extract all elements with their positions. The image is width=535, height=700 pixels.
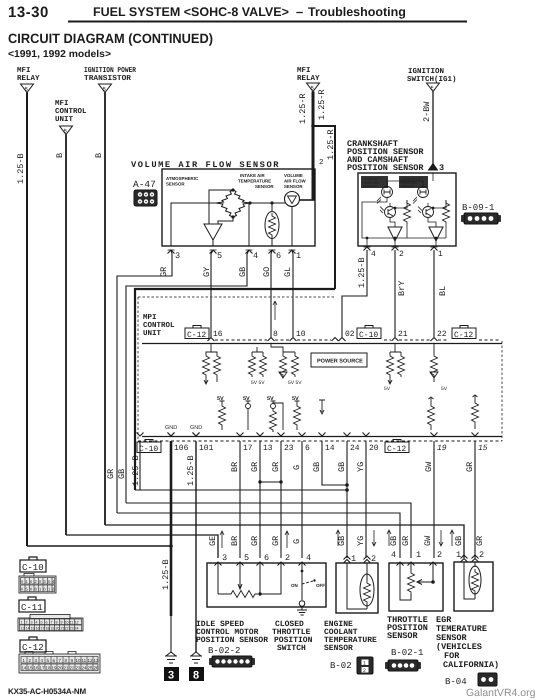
coolant box pin markers [344, 556, 371, 563]
svg-text:5V: 5V [441, 386, 448, 392]
svg-text:1: 1 [456, 550, 461, 560]
svg-text:13: 13 [263, 444, 273, 453]
EGR temperature sensor box [454, 562, 493, 611]
wire ECU pin6 G to idle pin4 [301, 441, 303, 558]
svg-text:19: 19 [51, 627, 55, 631]
svg-text:GR: GR [271, 462, 281, 472]
rail bridge right to circle [250, 202, 286, 204]
svg-text:IGNITION POWER: IGNITION POWER [84, 66, 136, 75]
svg-text:A-47: A-47 [133, 179, 156, 190]
svg-text:5V 5V: 5V 5V [288, 380, 302, 386]
svg-text:SENSOR: SENSOR [166, 182, 185, 187]
svg-text:1: 1 [21, 621, 23, 625]
wire relay route into ECU left [135, 289, 335, 490]
wire rail to oval resistor top [271, 203, 273, 212]
svg-text:8: 8 [273, 330, 278, 339]
power source box [311, 353, 367, 367]
svg-text:18: 18 [46, 666, 52, 671]
svg-text:1.25-R: 1.25-R [298, 93, 308, 124]
connector C-11 pin diagram [18, 615, 83, 632]
connector C-11 boxed label [19, 597, 45, 613]
svg-text:1.25-B: 1.25-B [131, 455, 141, 486]
ECU top pin 22 [431, 338, 438, 342]
svg-text:6: 6 [305, 444, 310, 453]
wire ECU pin19 GW to throttle pin2 [433, 441, 435, 558]
engine coolant temperature sensor box [336, 563, 378, 613]
svg-text:POSITION SENSOR: POSITION SENSOR [196, 636, 268, 645]
ECU interior: resistor at pin22 [430, 343, 438, 382]
svg-text:5: 5 [244, 553, 249, 563]
cam load resistor [404, 200, 411, 224]
EGR thermistor [464, 562, 481, 599]
svg-text:GE: GE [208, 536, 218, 546]
svg-text:Troubleshooting: Troubleshooting [308, 5, 406, 19]
svg-text:INTAKE AIR: INTAKE AIR [240, 173, 265, 178]
ignition switch symbol [427, 83, 440, 92]
svg-text:1.25-R: 1.25-R [326, 129, 336, 160]
svg-text:SWITCH: SWITCH [277, 644, 306, 653]
wire crank pin2 BrY to ECU pin 21 [394, 250, 396, 337]
svg-text:12: 12 [75, 621, 79, 625]
jumper GR pins 13-23 [260, 481, 281, 483]
svg-text:4: 4 [36, 621, 38, 625]
svg-text:10: 10 [76, 658, 82, 663]
svg-text:2: 2 [285, 553, 290, 563]
svg-text:SENSOR: SENSOR [387, 631, 419, 641]
svg-text:C-12: C-12 [387, 445, 406, 454]
svg-text:8: 8 [193, 670, 199, 682]
svg-text:20: 20 [56, 627, 60, 631]
intake air temperature sensor label [238, 173, 274, 189]
svg-text:1: 1 [351, 554, 356, 564]
crank amp triangle [429, 227, 443, 241]
wire amplifier to pin 5 [212, 240, 214, 246]
camshaft position sensor mini label [361, 176, 388, 189]
svg-text:GR: GR [475, 536, 485, 546]
wire bridge right to pin 4 [248, 204, 250, 246]
svg-text:5V 5V: 5V 5V [251, 380, 265, 386]
idle box pin markers [215, 562, 306, 566]
svg-text:20: 20 [369, 444, 379, 453]
wire ECU pin23 GR to idle pin2 [280, 441, 282, 558]
svg-text:UNIT: UNIT [143, 330, 162, 338]
svg-text:4: 4 [391, 550, 396, 560]
ECU interior second row 5V pullups [217, 396, 299, 402]
svg-text:1.25-R: 1.25-R [317, 89, 327, 120]
svg-text:B-04: B-04 [445, 677, 467, 687]
connector C-10 pin diagram [19, 574, 56, 594]
svg-text:6: 6 [264, 553, 269, 563]
ECU top strip solid line [142, 343, 502, 345]
svg-text:3: 3 [439, 163, 444, 173]
crank load resistor [443, 200, 450, 224]
svg-text:GB: GB [337, 462, 347, 472]
svg-text:OFF: OFF [316, 583, 325, 588]
ECU top pin 10 [290, 338, 297, 342]
svg-text:3: 3 [175, 251, 180, 261]
wire VAF pin6 GO to ECU pin 8 [271, 250, 272, 337]
svg-text:C-11: C-11 [21, 603, 43, 613]
ECU top unlabeled pin (relay feed) [332, 338, 339, 342]
svg-text:19: 19 [52, 666, 58, 671]
wire bridge left to pin 3 [171, 203, 216, 246]
idle speed label [196, 620, 268, 645]
engine coolant label [324, 620, 377, 653]
svg-text:–: – [296, 4, 303, 19]
svg-text:16: 16 [36, 627, 40, 631]
svg-text:5: 5 [217, 251, 222, 261]
ECU ground GND markers [165, 425, 202, 431]
wire oval bottom to pin 6 [271, 237, 273, 246]
wire relay branch to ECU [313, 126, 335, 289]
svg-text:SENSOR: SENSOR [255, 184, 274, 189]
svg-text:23: 23 [70, 627, 74, 631]
connector B-02-2 icon [210, 656, 255, 667]
MFI control unit box (dashed) [138, 297, 502, 441]
MFI control unit symbol [60, 126, 73, 135]
cam phototransistor [380, 207, 396, 218]
idle box interior motor network [218, 563, 281, 598]
cam amp triangle [388, 227, 402, 241]
wire MFI relay left, 1.25-B [26, 93, 28, 547]
bus H5 GE to idle pin3 [66, 535, 218, 558]
ECU top pin row dashed line [215, 339, 500, 341]
wire ignition switch 2-BW [432, 92, 434, 165]
ECU interior: pullup pair with diode [271, 343, 299, 378]
svg-text:3: 3 [222, 553, 227, 563]
ECU top pin 16 [208, 338, 215, 342]
crank LED diode [413, 187, 429, 204]
svg-text:16: 16 [213, 330, 223, 339]
closed throttle switch label [272, 620, 313, 653]
ECU top pin 21 [392, 338, 399, 342]
svg-text:4: 4 [253, 251, 258, 261]
ECU top boxed C-12 (second) [452, 326, 476, 341]
amplifier triangle (atmospheric) [204, 224, 222, 240]
svg-text:2: 2 [319, 158, 324, 167]
ECU top pin 02 with boxed C-10 [339, 338, 346, 342]
svg-text:GB: GB [337, 536, 347, 546]
wire crank pin1 BL to ECU pin 22 [433, 250, 435, 337]
svg-text:YG: YG [356, 462, 366, 472]
svg-text:GB: GB [389, 536, 399, 546]
svg-text:21: 21 [398, 330, 408, 339]
wire MFI control unit, B [65, 135, 67, 536]
svg-text:GW: GW [423, 535, 433, 546]
svg-text:2: 2 [399, 250, 404, 259]
crank internal wiring [362, 173, 446, 246]
svg-text:5: 5 [41, 621, 43, 625]
svg-text:3: 3 [31, 621, 33, 625]
coolant thermistor [347, 563, 374, 609]
svg-text:2: 2 [479, 550, 484, 560]
bus H4 GB to EGR pin1 [105, 525, 464, 558]
svg-text:4: 4 [306, 553, 311, 563]
wire ECU pin24 GB to coolant pin1 [346, 441, 348, 558]
svg-text:C-10: C-10 [139, 445, 158, 454]
wire bridge top to left rail [209, 190, 233, 224]
wire ECU pin 101 ground [195, 441, 197, 652]
svg-text:15: 15 [478, 444, 488, 453]
svg-text:1: 1 [416, 550, 421, 560]
svg-text:B-02-2: B-02-2 [208, 646, 240, 656]
svg-text:9: 9 [61, 621, 63, 625]
MFI relay (left) label [17, 67, 40, 83]
volume air flow sensor inner label [284, 173, 307, 189]
svg-text:CONTROL: CONTROL [55, 107, 87, 116]
svg-text:11: 11 [82, 658, 87, 663]
ECU bottom boxed C-10 [137, 440, 161, 455]
svg-text:1.25-B: 1.25-B [357, 257, 367, 288]
svg-text:1.25-B: 1.25-B [186, 455, 196, 486]
svg-text:C-10: C-10 [359, 331, 378, 340]
connector B-02-1 icon [386, 660, 421, 671]
svg-text:SENSOR: SENSOR [284, 184, 303, 189]
connector A-47 icon [134, 190, 157, 206]
svg-text:GB: GB [117, 469, 127, 479]
wire ECU C-10 1.25-B drop [139, 441, 141, 490]
wire bridge bottom to amplifier [218, 217, 233, 224]
throttle label [387, 615, 428, 641]
svg-text:MFI: MFI [55, 100, 69, 108]
svg-text:17: 17 [41, 627, 45, 631]
svg-text:26: 26 [94, 666, 100, 671]
ECU top pin row: boxed C-12 [185, 326, 209, 341]
intake air temp resistor oval [265, 212, 279, 239]
wire VAF pin1 GL to ECU pin 10 [292, 250, 293, 337]
svg-text:GND: GND [165, 425, 177, 431]
cam LED diode [377, 187, 393, 204]
MFI relay (right) symbol [307, 83, 320, 92]
crank/cam sensor box [358, 173, 456, 246]
crank phototransistor [418, 207, 434, 218]
svg-text:2: 2 [363, 668, 366, 674]
header rule [68, 21, 467, 23]
bus H2 GR to throttle pin1 [126, 503, 411, 558]
svg-text:G: G [292, 539, 302, 544]
connector C-12 boxed label [20, 637, 46, 653]
wire MFI relay right 1.25-R thick [312, 92, 315, 201]
bridge junction dots [231, 188, 234, 191]
svg-text:2-BW: 2-BW [422, 101, 432, 122]
air flow sensor circle [285, 192, 300, 207]
wire transistor, B [104, 93, 106, 526]
svg-text:14: 14 [325, 444, 335, 453]
svg-text:23: 23 [76, 666, 82, 671]
svg-text:GW: GW [424, 461, 434, 472]
svg-text:02: 02 [345, 330, 355, 339]
ECU bottom boxed C-12 [385, 440, 409, 455]
wire circle down to pin 1 [291, 207, 293, 247]
svg-text:CONTROL: CONTROL [143, 321, 175, 330]
svg-text:GR: GR [250, 462, 260, 472]
svg-text:21: 21 [64, 666, 70, 671]
svg-text:17: 17 [243, 444, 253, 453]
svg-text:6: 6 [46, 621, 48, 625]
svg-text:VOLUME: VOLUME [284, 173, 303, 178]
arrow idle pin3 [220, 531, 224, 548]
VAF pin markers and numbers [168, 250, 175, 254]
svg-text:RELAY: RELAY [17, 75, 40, 83]
svg-text:18: 18 [46, 627, 50, 631]
svg-text:12: 12 [88, 658, 94, 663]
throttle box pin markers [397, 562, 437, 566]
ECU top pin 8 [268, 338, 275, 342]
svg-text:B: B [94, 153, 104, 158]
wire circle to relay feed [300, 199, 316, 201]
svg-text:24: 24 [75, 627, 79, 631]
wire crank pin4 1.25-B to ECU C-10 [342, 250, 367, 337]
MFI control unit box label [143, 314, 175, 338]
svg-text:SENSOR: SENSOR [324, 644, 353, 653]
EGR label [436, 615, 499, 670]
svg-text:2: 2 [437, 550, 442, 560]
svg-text:YG: YG [356, 536, 366, 546]
svg-text:24: 24 [82, 666, 88, 671]
ECU interior: pullup pair mid [249, 347, 267, 377]
volume air flow sensor box [162, 169, 315, 246]
svg-text:14: 14 [26, 627, 30, 631]
svg-text:24: 24 [350, 444, 360, 453]
svg-text:B-09-1: B-09-1 [462, 203, 494, 213]
ECU bottom pin markers [137, 433, 479, 437]
svg-text:8: 8 [56, 621, 58, 625]
bus H6 to ground wire [27, 545, 171, 547]
svg-text:GL: GL [283, 267, 293, 277]
svg-text:BR: BR [230, 462, 240, 472]
svg-text:KX35-AC-H0534A-NM: KX35-AC-H0534A-NM [8, 687, 86, 696]
ignition power transistor symbol [99, 84, 112, 93]
bus H1 to coolant pin 1 [135, 489, 347, 491]
MFI relay (left) symbol [21, 84, 34, 93]
connector B-02 icon [357, 657, 373, 674]
wire labels below VAF [159, 267, 293, 277]
svg-text:101: 101 [199, 444, 214, 453]
EGR box pin markers [461, 555, 479, 562]
wire VAF pin4 GB route left [126, 250, 249, 503]
junction dot ground join [169, 544, 173, 548]
svg-text:TEMPERATURE: TEMPERATURE [238, 179, 271, 184]
svg-text:G: G [292, 465, 302, 470]
ignition switch label [407, 67, 457, 84]
svg-text:POSITION SENSOR: POSITION SENSOR [347, 163, 424, 173]
svg-text:<1991, 1992 models>: <1991, 1992 models> [8, 49, 111, 60]
MFI control unit (top symbol) label [55, 100, 87, 124]
svg-text:ATMOSPHERIC: ATMOSPHERIC [166, 176, 199, 181]
svg-text:MFI: MFI [297, 67, 311, 75]
connector C-12 pin diagram [19, 652, 100, 674]
svg-text:20: 20 [58, 666, 64, 671]
svg-text:GR: GR [106, 469, 116, 479]
wire VAF pin5 GY to ECU pin 16 [211, 250, 213, 337]
ignition power transistor label [84, 66, 136, 83]
wire ECU pin15 GR to EGR pin2 [474, 441, 476, 558]
svg-text:RELAY: RELAY [297, 75, 320, 83]
crankshaft/camshaft sensor title [347, 139, 424, 173]
svg-text:GR: GR [465, 462, 475, 472]
svg-text:AIR FLOW: AIR FLOW [284, 179, 307, 184]
svg-text:15: 15 [31, 627, 35, 631]
svg-text:16: 16 [34, 666, 40, 671]
svg-text:BL: BL [438, 286, 448, 296]
svg-text:IGNITION: IGNITION [408, 67, 444, 76]
svg-text:B-02: B-02 [330, 661, 352, 671]
svg-text:GB: GB [312, 462, 322, 472]
svg-text:14: 14 [22, 666, 28, 671]
svg-text:GND: GND [190, 425, 202, 431]
wire ECU pin14 GB with jog [322, 441, 347, 485]
idle speed control motor box [207, 563, 326, 607]
svg-text:CALIFORNIA): CALIFORNIA) [443, 660, 499, 670]
closed throttle switch inside idle box [299, 563, 315, 606]
svg-text:B-02-1: B-02-1 [391, 648, 423, 658]
svg-text:UNIT: UNIT [55, 116, 74, 124]
ECU bottom pin labels [174, 444, 488, 453]
svg-text:106: 106 [174, 444, 189, 453]
svg-text:1: 1 [438, 250, 443, 259]
svg-text:MFI: MFI [17, 67, 31, 75]
connector C-10 boxed label [20, 557, 46, 573]
svg-text:GB: GB [454, 536, 464, 546]
svg-text:10: 10 [296, 330, 306, 339]
crank box pin markers [364, 247, 371, 251]
wire ECU pin13 GR to idle pin6 [259, 441, 261, 558]
svg-text:22: 22 [70, 666, 76, 671]
svg-text:4: 4 [371, 250, 376, 259]
svg-text:25: 25 [88, 666, 94, 671]
svg-text:SENSOR: SENSOR [401, 185, 416, 189]
svg-text:C-12: C-12 [187, 331, 206, 340]
ECU bottom pin row dashed line [138, 440, 502, 442]
ground symbol 8 [190, 652, 202, 663]
bridge circuit (intake air temp bridge) [216, 190, 250, 217]
wire VAF pin3 GR route left [117, 250, 172, 513]
svg-text:TRANSISTOR: TRANSISTOR [84, 74, 132, 83]
svg-text:17: 17 [40, 666, 46, 671]
svg-text:13-30: 13-30 [8, 4, 49, 21]
wire ECU pin20 YG to coolant pin2 [365, 441, 367, 558]
svg-text:C-10: C-10 [22, 563, 44, 573]
svg-text:2: 2 [26, 621, 28, 625]
svg-text:1.25-B: 1.25-B [161, 559, 171, 590]
wire ECU pin 106 ground 1.25-B thick [170, 441, 173, 616]
svg-text:6: 6 [276, 251, 281, 261]
svg-text:GR: GR [250, 536, 260, 546]
svg-text:C-12: C-12 [454, 331, 473, 340]
svg-text:2: 2 [371, 554, 376, 564]
svg-text:3: 3 [168, 670, 174, 682]
throttle potentiometer [400, 563, 433, 600]
svg-text:GR: GR [271, 536, 281, 546]
svg-text:15: 15 [28, 666, 34, 671]
svg-text:1: 1 [363, 661, 366, 667]
svg-text:22: 22 [65, 627, 69, 631]
crankshaft position sensor mini label [399, 176, 428, 189]
svg-text:10: 10 [65, 621, 69, 625]
svg-text:BrY: BrY [397, 281, 407, 296]
svg-text:22: 22 [437, 330, 447, 339]
ground id 8 [189, 667, 204, 682]
wire ECU pin17 BR to idle pin5 [239, 441, 241, 558]
svg-text:5V: 5V [384, 386, 391, 392]
ECU bottom strip solid line [142, 436, 502, 438]
connector B-09-1 icon [462, 213, 501, 224]
svg-text:7: 7 [51, 621, 53, 625]
svg-text:GalantVR4.org: GalantVR4.org [466, 687, 535, 699]
arrow idle pin2 [285, 531, 289, 548]
svg-text:POWER SOURCE: POWER SOURCE [317, 359, 363, 365]
svg-text:BR: BR [230, 536, 240, 546]
